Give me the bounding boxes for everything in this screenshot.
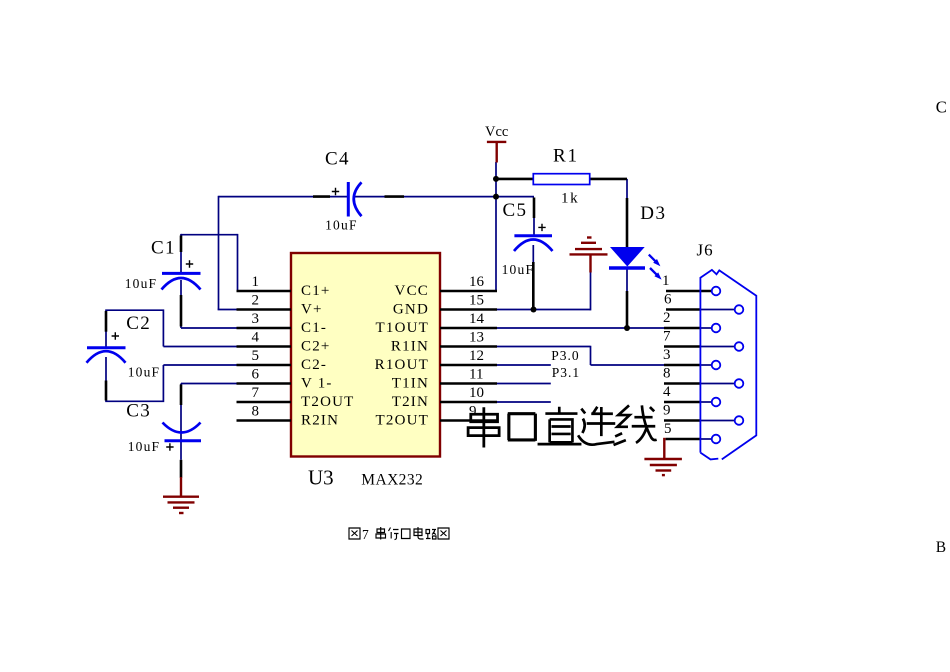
C2 pin segment bottom (black) <box>105 381 108 401</box>
pin 9 stub J6 <box>664 419 701 422</box>
svg-text:12: 12 <box>469 348 484 364</box>
svg-text:1: 1 <box>662 273 670 289</box>
wire R1IN row with jog to J6 pin3 <box>497 346 665 365</box>
caption char 图 (second) <box>438 528 449 539</box>
junction dot at C5/GND row <box>531 307 537 313</box>
C1 plus sign <box>186 260 193 267</box>
LED D3 light arrow 1 <box>649 255 657 263</box>
svg-text:4: 4 <box>252 330 260 346</box>
svg-text:V+: V+ <box>301 301 323 317</box>
svg-text:T2IN: T2IN <box>392 394 429 410</box>
svg-text:10: 10 <box>469 385 484 401</box>
junction dot at LED/T1OUT row <box>624 325 630 331</box>
C4 pin segment right (black) <box>385 195 405 198</box>
wire C5 top vertical blue part <box>533 218 535 236</box>
svg-text:B: B <box>936 539 946 556</box>
wire C3 top stem to row V1- <box>181 384 238 441</box>
wire LED cathode blue part <box>626 269 628 291</box>
C4 pin segment left (black) <box>313 195 330 198</box>
wire LED anode blue part <box>626 179 628 200</box>
J6 pin circles right column (pins 6,7,8,9) <box>735 305 744 314</box>
wire R1OUT stub P3.0 <box>497 364 551 366</box>
caption char 行 <box>389 528 399 540</box>
J6 pin circles left column (pins 1,2,3,4,5) <box>712 287 744 444</box>
wire J6 pin7 inner <box>701 346 735 348</box>
IC U3 MAX232 body <box>291 253 440 457</box>
wire ground stem blue part near D3 <box>590 272 592 310</box>
svg-text:T1OUT: T1OUT <box>376 320 430 336</box>
wire J6 pin8 inner <box>701 383 735 385</box>
wire row 3 blue to C1 <box>181 327 238 329</box>
svg-text:11: 11 <box>469 367 483 383</box>
svg-text:14: 14 <box>469 311 485 327</box>
svg-text:R1: R1 <box>553 145 579 166</box>
resistor R1 <box>533 174 589 185</box>
pin 2 stub J6 <box>664 327 701 330</box>
svg-text:2: 2 <box>663 310 671 326</box>
wire J6 pin1 inner <box>701 290 712 292</box>
junction dot at Vcc/C4 node <box>493 194 499 200</box>
pin 8 stub J6 <box>664 382 701 385</box>
wire C3 bottom stem blue part <box>180 441 182 460</box>
pin 11 stub U3 <box>440 382 497 385</box>
caption 图7 串行口电路图 <box>349 528 360 539</box>
svg-text:P3.1: P3.1 <box>552 365 580 380</box>
svg-text:10uF: 10uF <box>128 365 161 380</box>
svg-text:V 1-: V 1- <box>301 375 333 391</box>
pin 1 stub U3 <box>237 290 292 293</box>
wire C3 stem black part <box>180 460 183 478</box>
pin 14 stub U3 <box>440 327 497 330</box>
pin 3 stub U3 <box>237 327 292 330</box>
wire vertical down to pin 1 <box>237 234 239 291</box>
svg-text:8: 8 <box>663 366 671 382</box>
svg-text:T2OUT: T2OUT <box>376 412 430 428</box>
wire J6 pin4 inner <box>701 401 712 403</box>
pin 9 stub U3 <box>440 419 497 422</box>
wire R1 right to LED corner <box>590 178 627 181</box>
wire V+ row blue <box>218 309 238 311</box>
wire T1OUT row to J6 pin2 <box>497 327 665 329</box>
caption char 电 <box>414 527 424 539</box>
wire C1 bottom stem to row 3 <box>180 280 182 328</box>
svg-text:C5: C5 <box>503 200 528 221</box>
svg-text:R1IN: R1IN <box>391 338 429 354</box>
capacitor C5 <box>514 236 553 251</box>
svg-text:1k: 1k <box>561 191 579 207</box>
svg-text:Vcc: Vcc <box>485 124 508 140</box>
capacitor C1 <box>162 273 201 289</box>
svg-text:7: 7 <box>252 385 260 401</box>
svg-text:6: 6 <box>664 292 672 308</box>
wire C1 top horizontal <box>181 234 238 236</box>
pin 7 stub J6 <box>664 345 701 348</box>
svg-text:9: 9 <box>663 403 671 419</box>
svg-text:4: 4 <box>663 384 671 400</box>
pin 8 stub U3 <box>237 419 292 422</box>
wire C4 left vertical down to V+ <box>218 196 220 310</box>
C4 plus sign <box>332 188 339 195</box>
U3 pin name labels <box>301 283 429 429</box>
svg-text:C4: C4 <box>325 149 350 170</box>
wire C2 top loop <box>105 309 238 347</box>
svg-text:J6: J6 <box>697 241 714 260</box>
pin 4 stub U3 <box>237 345 292 348</box>
pin 16 stub U3 <box>440 290 497 293</box>
wire J6 pin2 inner <box>701 327 712 329</box>
svg-text:T2OUT: T2OUT <box>301 394 355 410</box>
pin 1 stub J6 <box>666 290 712 293</box>
pin 6 stub J6 <box>666 308 701 311</box>
pin 5 stub J6 <box>666 438 701 441</box>
big title char 线 <box>614 405 657 445</box>
caption char 图 <box>349 528 360 539</box>
LED D3 triangle <box>610 247 645 267</box>
svg-text:10uF: 10uF <box>502 262 535 277</box>
capacitor C4 (horizontal) <box>348 182 361 217</box>
wire C4 row right segment to Vcc node <box>355 196 497 198</box>
svg-text:U3: U3 <box>308 466 334 490</box>
svg-text:T1IN: T1IN <box>392 375 429 391</box>
svg-text:C: C <box>936 98 947 117</box>
wire LED anode black part <box>626 198 629 247</box>
pin 5 stub U3 <box>237 364 292 367</box>
svg-text:C2+: C2+ <box>301 338 331 354</box>
wire LED cathode black part to junction <box>626 291 629 328</box>
junction dot at Vcc/R1 node <box>493 176 499 182</box>
wire J6 pin9 inner <box>701 420 735 422</box>
pin 10 stub U3 <box>440 401 497 404</box>
C1 pin segment top (black) <box>180 236 183 253</box>
wire C5 bottom stem blue part <box>532 245 534 262</box>
U3 left pin numbers 1-8 <box>252 273 673 437</box>
big title char 直 <box>538 407 582 444</box>
C3 pin segment top (black) <box>180 385 183 406</box>
svg-text:15: 15 <box>469 293 484 309</box>
svg-text:13: 13 <box>469 330 484 346</box>
wire R1 left <box>496 178 533 181</box>
capacitor C2 <box>87 348 126 363</box>
svg-text:C2: C2 <box>126 313 151 334</box>
svg-text:D3: D3 <box>640 203 666 224</box>
svg-text:2: 2 <box>252 293 260 309</box>
svg-text:P3.0: P3.0 <box>551 348 579 363</box>
svg-text:GND: GND <box>393 301 429 317</box>
svg-text:7: 7 <box>362 527 369 542</box>
pin 6 stub U3 <box>237 382 292 385</box>
wire C5 top vertical black part <box>533 198 536 219</box>
svg-text:R1OUT: R1OUT <box>375 357 429 373</box>
wire Vcc vertical blue <box>441 162 496 291</box>
svg-text:10uF: 10uF <box>125 276 158 291</box>
wire GND row blue <box>497 309 591 311</box>
svg-text:1: 1 <box>252 274 260 290</box>
pin 4 stub J6 <box>664 401 701 404</box>
svg-text:10uF: 10uF <box>128 439 161 454</box>
svg-text:C2-: C2- <box>301 357 327 373</box>
wire J6 pin5 inner <box>701 438 712 440</box>
big title char 连 <box>578 407 615 445</box>
svg-text:R2IN: R2IN <box>301 412 339 428</box>
svg-text:C1+: C1+ <box>301 283 331 299</box>
svg-text:VCC: VCC <box>395 283 429 299</box>
caption char 路 <box>426 530 436 540</box>
big title char 口 <box>508 414 536 441</box>
wire C5 top horizontal <box>496 196 534 198</box>
C3 plus sign <box>166 443 173 450</box>
wire J6 pin6 inner <box>701 309 735 311</box>
connector J6 body <box>700 270 756 460</box>
ground symbol near D3 (inverted earth) <box>570 238 608 273</box>
caption char 串 <box>376 527 386 540</box>
pin 3 stub J6 <box>664 364 701 367</box>
C2 pin segment top (black) <box>105 311 108 332</box>
pin 13 stub U3 <box>440 345 497 348</box>
wire C5 bottom black part to GND row <box>532 262 535 310</box>
wire J6 pin3 inner <box>701 364 712 366</box>
C1 pin segment bottom (black) <box>180 295 183 327</box>
pin 12 stub U3 <box>440 364 497 367</box>
svg-text:10uF: 10uF <box>325 218 358 233</box>
svg-text:8: 8 <box>252 404 260 420</box>
wire T2IN stub <box>497 401 551 403</box>
wire T1IN stub P3.1 <box>497 383 551 385</box>
ground symbol below J6 pin5 <box>644 438 682 475</box>
wire C1 top stem <box>180 234 182 274</box>
svg-text:6: 6 <box>252 367 260 383</box>
ground symbol below C3 <box>163 477 199 513</box>
svg-text:C1-: C1- <box>301 320 327 336</box>
svg-text:MAX232: MAX232 <box>361 472 423 489</box>
wire C4 row left segment <box>219 196 349 198</box>
svg-text:5: 5 <box>252 348 260 364</box>
C5 plus sign <box>538 224 545 231</box>
svg-text:16: 16 <box>469 274 485 290</box>
pin 15 stub U3 <box>440 308 497 311</box>
capacitor C3 (flipped) <box>163 423 202 441</box>
wire C2 bottom loop <box>105 357 238 402</box>
LED D3 light arrow 2 <box>650 268 658 276</box>
svg-text:C1: C1 <box>151 238 176 259</box>
pin 2 stub U3 <box>237 308 292 311</box>
svg-text:5: 5 <box>664 421 672 437</box>
LED D3 cathode bar <box>609 266 645 269</box>
pin 7 stub U3 <box>237 401 292 404</box>
big title char 串 <box>468 407 499 447</box>
svg-text:3: 3 <box>252 311 260 327</box>
Vcc power symbol <box>487 142 506 163</box>
svg-text:3: 3 <box>663 347 671 363</box>
svg-text:C3: C3 <box>126 400 151 421</box>
caption char 口 <box>402 529 411 539</box>
svg-text:7: 7 <box>663 329 671 345</box>
C2 plus sign <box>112 332 119 339</box>
